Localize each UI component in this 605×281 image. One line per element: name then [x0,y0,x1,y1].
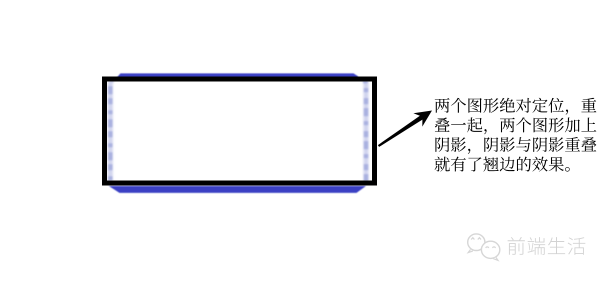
annotation text line 4 [435,157,570,172]
annotation text line 1 [435,98,597,115]
annotation text line 3 [435,137,596,154]
watermark wechat logo: small bubble eyes [486,246,496,249]
black bordered rectangle [105,79,375,183]
arrow pointing to text [378,111,432,147]
watermark text 前端生活 [508,237,586,255]
annotation text line 2 [435,117,596,134]
watermark wechat logo: small bubble [481,241,499,258]
watermark wechat logo: small bubble tail [493,257,498,260]
blue shadow band bottom [109,186,366,193]
watermark wechat logo: big bubble eyes [471,238,481,240]
watermark wechat logo: big bubble [468,234,485,251]
blue shadow band top [117,73,358,77]
inner blue shadow streaks (rounded-rect glow seen through the white panel) [110,74,366,193]
watermark wechat logo: big bubble tail [468,250,473,253]
